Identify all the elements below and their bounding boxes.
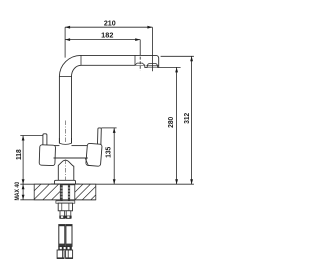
spout outline (L-shaped spout: riser, elbow, horizontal tube, end piece) (59, 55, 158, 143)
left handle tab (43, 134, 47, 146)
body bridge (horizontal cylinder) (54, 146, 88, 158)
riser walls over body (59, 138, 71, 143)
mounting nut (58, 203, 72, 211)
extension line aerator bottom (280) (159, 66, 181, 68)
base flange (55, 180, 76, 184)
hose lower crimp bands (59, 244, 65, 247)
bridge to right box bottom connector (85, 158, 88, 165)
dimension line 118 / MAX40 shared vertical (22, 136, 24, 200)
spout joint lines (59, 55, 135, 76)
hose connector band with ports (58, 246, 72, 250)
threaded shank (61, 185, 71, 201)
svg-text:280: 280 (168, 117, 175, 128)
countertop right hatched section (75, 184, 96, 200)
dimension line 135 (113, 128, 115, 184)
dimension line 210 (65, 26, 152, 28)
svg-text:312: 312 (184, 113, 191, 124)
hose end nuts (57, 250, 73, 258)
hose top crimp bands (59, 225, 65, 227)
dimension: shared left extension line (riser centerline) (64, 27, 66, 57)
countertop left hatched section (34, 184, 60, 200)
diverter bump on spout underside (135, 63, 145, 65)
svg-text:182: 182 (101, 33, 113, 40)
svg-text:210: 210 (104, 20, 116, 27)
extension line left handle top (118) (20, 135, 42, 137)
extension/centerline at diverter (182 right end) (139, 40, 141, 52)
washer under counter (56, 201, 75, 203)
extension/centerline at aerator (210 right end) (151, 27, 153, 71)
right valve box (86, 143, 102, 166)
dimension line 182 (65, 39, 140, 41)
extension line spout top (312) (161, 55, 194, 57)
svg-text:118: 118 (16, 149, 23, 160)
right handle tab (97, 128, 101, 145)
dimension line 280 (176, 67, 178, 184)
countertop bottom line (20, 199, 96, 201)
countertop top line (20, 183, 194, 185)
aerator horizontal centerline (146, 65, 159, 67)
riser dash-dot centerline (64, 121, 66, 144)
aerator dome (147, 64, 158, 68)
flange base ring (dark) (51, 184, 80, 186)
riser-body saddle arc (59, 143, 71, 144)
left valve box (39, 145, 55, 166)
svg-text:135: 135 (106, 147, 113, 158)
neck cone (58, 160, 74, 181)
flexible hoses (separate assembly below) (59, 225, 72, 247)
svg-text:MAX 40: MAX 40 (14, 181, 21, 200)
neck dash-dot centerline (64, 160, 66, 184)
dimension line 312 (191, 56, 193, 184)
extension line right handle top (135) (101, 127, 116, 129)
hose stubs below nut (60, 211, 71, 219)
